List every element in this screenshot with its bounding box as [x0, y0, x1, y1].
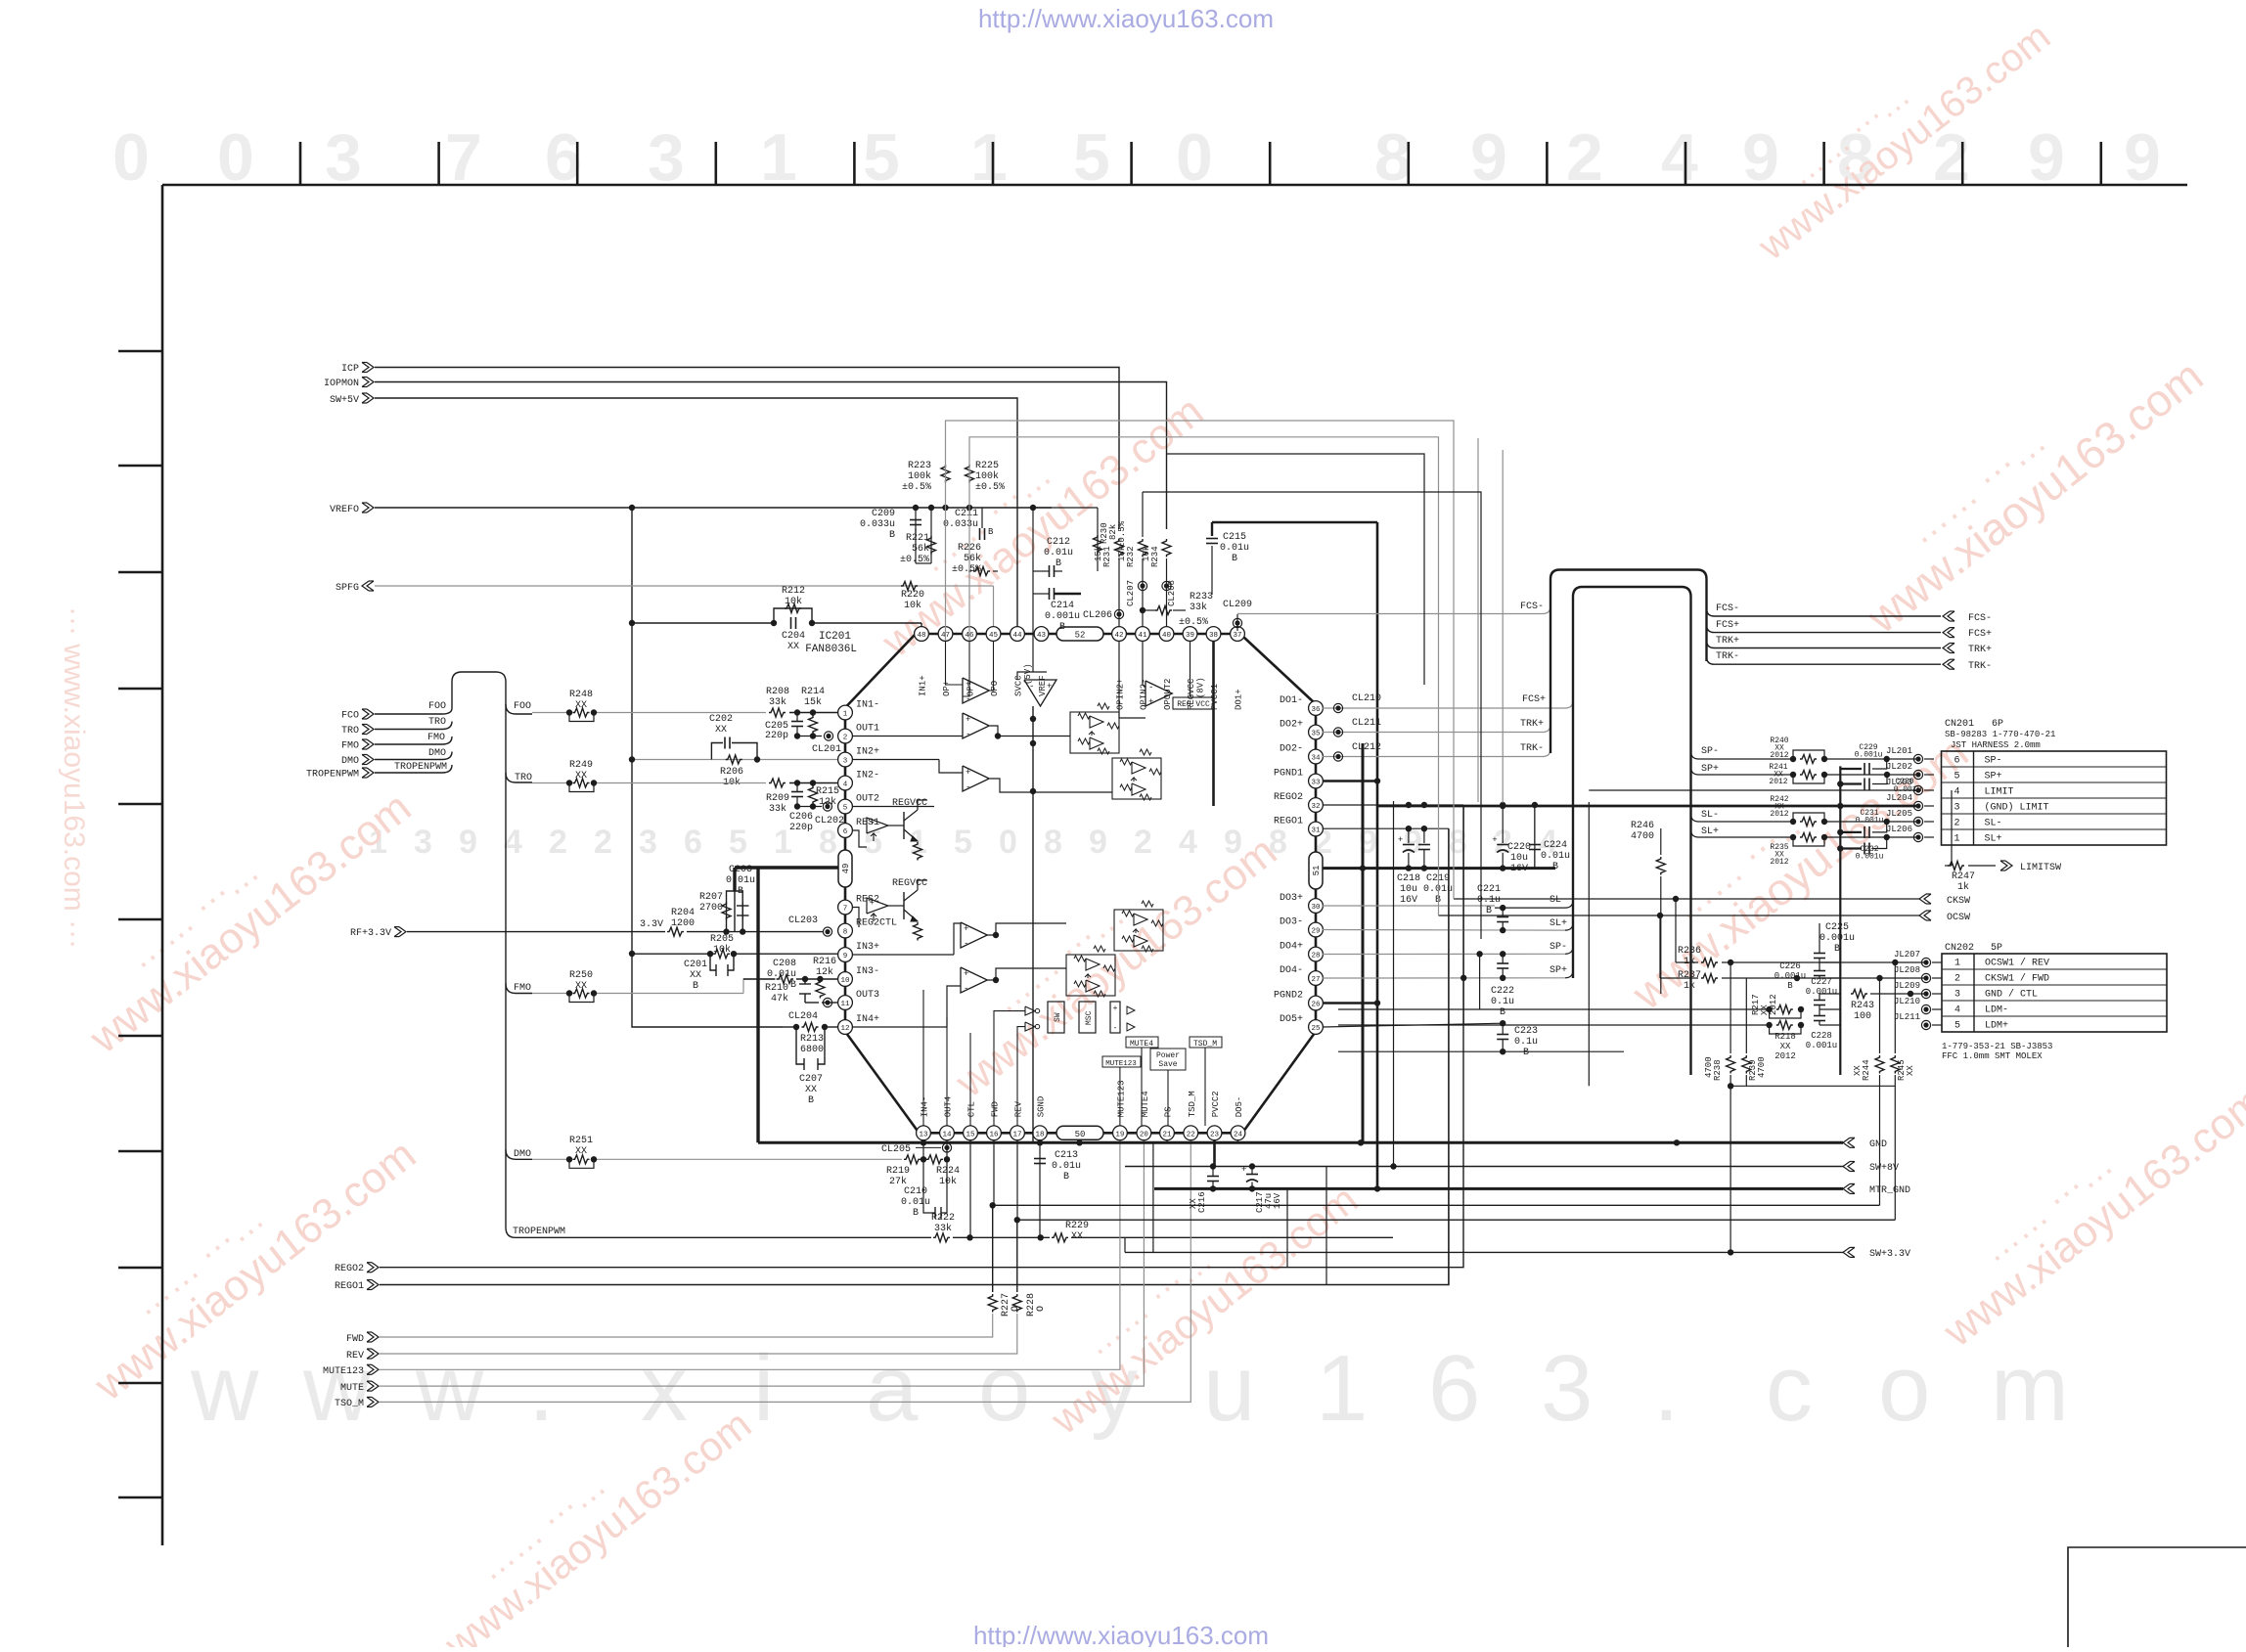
svg-text:29: 29: [1311, 928, 1320, 936]
svg-text:B: B: [1523, 1048, 1529, 1058]
resistor R213 and capacitor C207: [802, 1023, 819, 1032]
wire IN3- row: [743, 978, 775, 980]
svg-text:33: 33: [1311, 780, 1321, 787]
svg-text:2012: 2012: [1769, 994, 1778, 1015]
svg-text:C223: C223: [1514, 1026, 1538, 1037]
svg-text:IOPMON: IOPMON: [324, 379, 359, 389]
svg-text:±0.5%: ±0.5%: [1179, 617, 1208, 628]
capacitor C213: [1039, 1140, 1041, 1238]
svg-text:TSO_M: TSO_M: [335, 1399, 364, 1409]
svg-text:0.01u: 0.01u: [901, 1197, 930, 1208]
svg-text:FMO: FMO: [514, 983, 531, 994]
svg-text:2012: 2012: [1770, 751, 1788, 760]
resistor R236: [1701, 959, 1718, 967]
node TRK- output: [1948, 659, 1954, 669]
page border left line: [161, 185, 164, 1545]
wire TRK+ exit: [1707, 641, 1942, 648]
svg-text:R205: R205: [710, 934, 734, 945]
svg-text:38: 38: [1209, 632, 1218, 640]
svg-text:SP+: SP+: [1701, 764, 1719, 775]
svg-text:XX: XX: [1071, 1231, 1083, 1242]
capacitor C211: [981, 508, 983, 528]
capacitor C227: [1814, 1000, 1825, 1002]
svg-text:REG VCC: REG VCC: [1177, 700, 1210, 709]
svg-text:9: 9: [843, 953, 848, 960]
svg-text:SP+: SP+: [1985, 772, 2002, 782]
wire IN4 nets: [852, 1026, 947, 1028]
svg-text:24: 24: [1234, 1131, 1243, 1139]
svg-text:CL205: CL205: [881, 1144, 911, 1155]
capacitor C209: [915, 508, 917, 533]
svg-text:CKSW: CKSW: [1947, 896, 1970, 907]
svg-text:2012: 2012: [1770, 858, 1788, 867]
svg-text:XX: XX: [575, 1146, 587, 1157]
svg-text:R227: R227: [1001, 1293, 1011, 1317]
svg-text:XX: XX: [575, 771, 587, 781]
svg-text:R219: R219: [886, 1166, 910, 1177]
capacitor C202 with resistor R206: [711, 743, 723, 760]
svg-text:B: B: [1063, 1172, 1069, 1183]
capacitor C231: [1840, 831, 1862, 833]
svg-text:8: 8: [1449, 824, 1467, 861]
svg-text:0: 0: [112, 120, 150, 195]
wire thick verticals: [1362, 743, 1365, 1142]
boxed label REG VCC: [1173, 697, 1214, 709]
svg-text:47k: 47k: [771, 993, 788, 1005]
svg-text:C206: C206: [789, 812, 813, 823]
capacitor C225: [1819, 923, 1820, 953]
wire GND LIMIT row thick: [1377, 805, 1918, 808]
wire TSO_M net: [380, 1140, 1190, 1403]
svg-text:www.xiaoyu163.com: www.xiaoyu163.com: [1750, 15, 2058, 269]
wire DO5+ row: [1323, 1023, 1503, 1027]
svg-text:16V: 16V: [1400, 895, 1417, 906]
svg-text:FMO: FMO: [427, 733, 445, 743]
resistor R242: [1790, 819, 1796, 825]
svg-text:1-779-353-21 SB-J3853: 1-779-353-21 SB-J3853: [1942, 1042, 2052, 1051]
wire decoupling ground bus thick: [1323, 867, 1555, 870]
capacitor C218: [1408, 828, 1410, 843]
svg-text:10k: 10k: [939, 1176, 957, 1187]
svg-text:C215: C215: [1223, 532, 1246, 543]
wire GND bus thick: [758, 1141, 1843, 1144]
boxed label Power Save: [1150, 1049, 1186, 1070]
svg-text:R234: R234: [1150, 546, 1160, 567]
wire SP+ row: [1323, 977, 1565, 979]
wire thick vertical to GND bus: [756, 868, 759, 1142]
svg-text:OUT2: OUT2: [856, 794, 879, 805]
svg-text:FCO: FCO: [341, 711, 359, 722]
wire SP- to CN201: [1691, 751, 1794, 759]
svg-text:10: 10: [840, 977, 850, 985]
svg-text:220p: 220p: [789, 823, 813, 833]
wire OPIN2 feedback: [1119, 641, 1145, 718]
svg-text:13: 13: [919, 1131, 928, 1139]
svg-text:1: 1: [1316, 1336, 1368, 1441]
svg-text:51: 51: [1312, 866, 1322, 876]
svg-text:OUT4: OUT4: [944, 1096, 954, 1118]
svg-text:LIMIT: LIMIT: [1985, 787, 2014, 798]
resistor R224: [926, 1155, 943, 1164]
svg-text:21: 21: [1162, 1131, 1172, 1139]
capacitor C232: [1840, 847, 1862, 849]
svg-text:MUTE4: MUTE4: [1130, 1040, 1153, 1049]
svg-text:RES1: RES1: [856, 818, 879, 828]
svg-text:TRO: TRO: [428, 717, 446, 728]
svg-text:56k: 56k: [912, 543, 929, 555]
resistor R237: [1701, 974, 1718, 983]
svg-text:100k: 100k: [975, 470, 999, 482]
capacitor C219: [1423, 828, 1425, 843]
svg-text:R231: R231: [1102, 546, 1112, 567]
wire bottom pin interior stubs: [922, 990, 924, 1126]
wire OUT2 feedback row: [797, 806, 822, 808]
svg-text:C218: C218: [1397, 873, 1420, 884]
IC U201 top pins 42-37: [1112, 627, 1127, 642]
svg-text:6800: 6800: [800, 1045, 824, 1055]
svg-text:B: B: [889, 530, 895, 541]
bus crossover hat outer: [1550, 570, 1707, 754]
svg-text:R216: R216: [813, 957, 836, 967]
wire OCSW net: [1439, 915, 1920, 916]
svg-text:2: 2: [594, 824, 612, 861]
op-amp VREF buffer: [1024, 680, 1056, 706]
svg-text:TRK+: TRK+: [1520, 719, 1544, 730]
boxed label MUTE4: [1126, 1037, 1158, 1048]
svg-text:R225: R225: [975, 461, 999, 471]
IC U201 left pins 1-6: [838, 705, 853, 720]
wire pin21 drop: [1166, 1140, 1168, 1143]
svg-text:R214: R214: [801, 687, 825, 697]
page border top ruler line: [162, 184, 2187, 187]
svg-text:CL211: CL211: [1352, 718, 1381, 729]
resistor R241: [1790, 772, 1796, 778]
svg-text:7: 7: [843, 906, 848, 914]
svg-text:20: 20: [1140, 1131, 1149, 1139]
svg-text:0: 0: [999, 824, 1017, 861]
resistor R205 and capacitor C201: [707, 951, 713, 957]
svg-text:FOO: FOO: [428, 701, 446, 712]
svg-text:R207: R207: [699, 892, 723, 903]
wire REGVCC pin stub: [1190, 641, 1191, 696]
svg-text:OPO: OPO: [990, 681, 1000, 696]
svg-text:GND / CTL: GND / CTL: [1985, 989, 2038, 1001]
svg-text:OCSW1 / REV: OCSW1 / REV: [1985, 958, 2049, 969]
svg-text:FCS-: FCS-: [1716, 603, 1739, 614]
wire FOO row: [532, 712, 569, 714]
svg-text:1k: 1k: [1684, 980, 1695, 992]
svg-text:R236: R236: [1678, 946, 1701, 957]
wire R212 row: [632, 622, 774, 624]
node CL212: [1333, 752, 1342, 761]
svg-text:R220: R220: [901, 590, 924, 601]
wire OUT2 net: [852, 806, 934, 808]
node CL203: [823, 927, 831, 936]
svg-text:C216: C216: [1197, 1191, 1207, 1213]
svg-text:c: c: [1766, 1336, 1813, 1441]
svg-text:50: 50: [1075, 1130, 1086, 1139]
svg-text:19: 19: [1115, 1131, 1124, 1139]
node MTR_GND: [1848, 1183, 1855, 1193]
wire REV net: [380, 1314, 1017, 1354]
svg-text:5: 5: [1954, 772, 1959, 782]
svg-text:R244: R244: [1862, 1059, 1871, 1081]
wire loop OP- to OCSW: [969, 437, 1439, 915]
svg-text:12k: 12k: [816, 966, 833, 978]
svg-text:9: 9: [1089, 824, 1107, 861]
svg-text:RF+3.3V: RF+3.3V: [350, 928, 391, 939]
connector CN201 table: [1942, 751, 2167, 845]
wire pin16 pin17 drops: [993, 1140, 995, 1206]
svg-text:10k: 10k: [1142, 546, 1151, 561]
svg-text:±0.5%: ±0.5%: [902, 482, 931, 493]
svg-text:.: .: [528, 1336, 555, 1441]
svg-text:10u: 10u: [1510, 853, 1528, 864]
resistor R226: [973, 567, 990, 576]
svg-text:SL+: SL+: [1550, 918, 1567, 929]
svg-text:2012: 2012: [1774, 1051, 1796, 1061]
capacitor C220: [1502, 805, 1504, 843]
wire pin23 PVCC2 drop: [1213, 1140, 1216, 1167]
svg-text:10u: 10u: [1400, 884, 1417, 895]
svg-text:GND: GND: [1869, 1139, 1887, 1150]
svg-text:31: 31: [1311, 827, 1321, 835]
svg-text:+: +: [1398, 835, 1403, 845]
svg-text:4700: 4700: [1631, 831, 1654, 842]
svg-text:1: 1: [1954, 959, 1960, 969]
svg-text:DO3-: DO3-: [1280, 917, 1303, 928]
svg-text:JL210: JL210: [1894, 997, 1920, 1006]
svg-text:3: 3: [1954, 990, 1960, 1001]
resistor R230: [1097, 508, 1099, 571]
svg-text:SL-: SL-: [1701, 810, 1719, 821]
wire SL- row: [1323, 905, 1495, 907]
svg-text:0.001u: 0.001u: [1806, 987, 1837, 997]
resistor R244: [1875, 1055, 1884, 1074]
wire OUT1 feedback row: [797, 736, 822, 737]
svg-text:5: 5: [1073, 120, 1110, 195]
resistor R207 and capacitor C203: [727, 891, 743, 932]
svg-text:C226: C226: [1779, 961, 1801, 971]
svg-text:-: -: [1029, 682, 1034, 692]
IC U201 pin oval 52: [1056, 627, 1103, 641]
svg-text:DO3+: DO3+: [1280, 893, 1303, 904]
svg-text:2: 2: [549, 824, 567, 861]
op-amp OUT2 amp: [963, 766, 989, 791]
svg-text:0.001u: 0.001u: [1856, 852, 1884, 861]
svg-text:41: 41: [1138, 632, 1147, 640]
svg-text:49: 49: [841, 864, 851, 874]
svg-text:B: B: [808, 1095, 814, 1106]
wire MUTE123 net: [380, 1140, 1120, 1370]
wire REV inner net: [1016, 1220, 1018, 1292]
svg-text:B: B: [913, 1208, 919, 1219]
svg-text:2: 2: [1954, 819, 1959, 829]
resistor R246: [1660, 828, 1662, 855]
wire RES1 net: [852, 830, 867, 847]
svg-text:SL+: SL+: [1701, 826, 1719, 837]
wire VREFO net: [375, 507, 1052, 509]
svg-text:+: +: [1148, 697, 1153, 707]
svg-text:8: 8: [843, 929, 848, 937]
resistor R214: [809, 716, 818, 735]
svg-text:JST HARNESS 2.0mm: JST HARNESS 2.0mm: [1951, 740, 2041, 750]
svg-text:R233: R233: [1190, 592, 1213, 603]
wire FCO entry: [375, 708, 452, 714]
node CKSW: [1924, 894, 1931, 904]
resistor R245: [1891, 1055, 1900, 1074]
svg-text:FCS-: FCS-: [1520, 602, 1544, 612]
svg-text:14: 14: [942, 1131, 952, 1139]
svg-text:XX: XX: [1189, 1198, 1198, 1209]
capacitor C230: [1840, 782, 1862, 784]
resistor R208: [769, 708, 786, 717]
node CL208: [1162, 581, 1171, 590]
svg-text:3: 3: [325, 120, 362, 195]
svg-text:9: 9: [459, 824, 477, 861]
svg-text:27: 27: [1311, 976, 1320, 984]
wire oval50 ground drop: [1078, 1140, 1081, 1143]
svg-text:R210: R210: [765, 983, 788, 994]
node CL210: [1333, 703, 1342, 712]
svg-text:x: x: [641, 1336, 688, 1441]
svg-text:1: 1: [1954, 834, 1959, 845]
svg-text:.: .: [1653, 1336, 1680, 1441]
driver cluster D: [1066, 955, 1115, 996]
resistor R249: [566, 780, 572, 785]
svg-text:5: 5: [1954, 1021, 1960, 1032]
svg-text:C201: C201: [684, 960, 707, 970]
svg-text:C207: C207: [799, 1074, 823, 1085]
wire TRK- exit: [1707, 656, 1942, 664]
resistor R248: [566, 709, 572, 715]
wire IN3 nets: [852, 954, 954, 956]
wire TRO row: [532, 782, 569, 784]
wire SW+3.3V net: [1125, 1251, 1843, 1253]
svg-text:4: 4: [1661, 120, 1698, 195]
svg-text:MSC: MSC: [1085, 1010, 1094, 1025]
capacitor C214: [1049, 588, 1051, 600]
capacitor C228: [1814, 1015, 1825, 1017]
resistor R204: [667, 927, 684, 936]
wire FMO row: [532, 993, 569, 995]
svg-text:10k: 10k: [785, 596, 802, 607]
svg-text:SW+3.3V: SW+3.3V: [1869, 1249, 1910, 1260]
resistor R218: [1766, 1022, 1772, 1028]
svg-text:0.033u: 0.033u: [943, 519, 978, 530]
wire loop OPIN2- net: [1143, 492, 1481, 939]
resistor R247 LIMITSW: [1951, 790, 1953, 866]
svg-text:JL209: JL209: [1894, 981, 1920, 991]
svg-text:CL203: CL203: [788, 915, 818, 926]
resistor R251: [566, 1156, 572, 1162]
svg-text:4: 4: [1179, 824, 1197, 861]
svg-text:33k: 33k: [769, 803, 786, 815]
wire pin24 drop: [1237, 1140, 1239, 1143]
svg-text:C210: C210: [904, 1186, 927, 1197]
svg-text:REGO2: REGO2: [1274, 792, 1303, 803]
svg-text:TRO: TRO: [341, 726, 359, 737]
wire SW+5V net: [375, 398, 1017, 627]
top ruler ticks: [300, 142, 2101, 185]
svg-text:SL-: SL-: [1985, 819, 2002, 829]
svg-text:OPIN2+: OPIN2+: [1116, 679, 1126, 710]
svg-text:±0.5%: ±0.5%: [900, 555, 929, 565]
svg-text:4: 4: [1954, 787, 1959, 798]
svg-text:0.01u: 0.01u: [726, 875, 755, 886]
op-amp OPIN2 amp: [1145, 681, 1172, 706]
wire SL- to CN201: [1691, 814, 1794, 822]
wire FCS- exit: [1707, 608, 1942, 616]
wire MUTE123 inner: [1119, 1067, 1121, 1126]
wire RES2 net: [852, 908, 859, 928]
node CL205: [942, 1143, 951, 1152]
IC U201 pin oval 50: [1056, 1126, 1103, 1139]
svg-text:44: 44: [1012, 632, 1022, 640]
svg-text:Save: Save: [1158, 1060, 1177, 1069]
wire REGO2 net: [380, 805, 1463, 1268]
svg-text:CL210: CL210: [1352, 693, 1381, 704]
svg-text:0.01u: 0.01u: [1220, 543, 1249, 554]
svg-text:w: w: [190, 1336, 259, 1441]
svg-text:18k: 18k: [1117, 546, 1127, 561]
boxed label MUTE123: [1102, 1056, 1141, 1067]
svg-text:www.xiaoyu163.com: www.xiaoyu163.com: [435, 1401, 759, 1647]
svg-text:1: 1: [760, 120, 797, 195]
svg-text:VREFO: VREFO: [330, 505, 359, 515]
svg-text:XX: XX: [690, 970, 701, 981]
svg-text:LDM-: LDM-: [1985, 1005, 2008, 1016]
left ruler ticks: [118, 351, 162, 1497]
svg-text:5P: 5P: [1991, 943, 2002, 954]
svg-text:C224: C224: [1544, 840, 1567, 851]
IC U201 top pins 48-43: [915, 627, 929, 642]
svg-text:R251: R251: [569, 1136, 593, 1146]
svg-text:33k: 33k: [1190, 602, 1207, 613]
svg-text:IN4-: IN4-: [921, 1096, 930, 1118]
node CL204: [823, 998, 831, 1006]
svg-text:CL209: CL209: [1223, 600, 1252, 610]
svg-text:B: B: [1787, 981, 1793, 991]
capacitor C210: [923, 1159, 935, 1213]
svg-text:TRK+: TRK+: [1716, 636, 1739, 647]
svg-text:FCS+: FCS+: [1968, 629, 1992, 640]
svg-text:+: +: [966, 768, 970, 778]
svg-text:CKSW1 / FWD: CKSW1 / FWD: [1985, 973, 2049, 985]
resistor R215: [809, 786, 818, 805]
wire IOPMON net: [375, 382, 1167, 530]
svg-text:JL206: JL206: [1886, 825, 1912, 834]
resistor R220: [901, 582, 918, 591]
svg-text:C228: C228: [1811, 1031, 1832, 1041]
wire FWD net: [380, 1314, 993, 1337]
svg-text:56k: 56k: [964, 553, 981, 564]
svg-text:R229: R229: [1065, 1221, 1089, 1231]
svg-text:IN4+: IN4+: [856, 1014, 879, 1025]
svg-text:0.033u: 0.033u: [860, 519, 895, 530]
svg-text:11: 11: [840, 1001, 850, 1008]
wire R238 R239 bottom bus: [1730, 1085, 1895, 1087]
node CL201: [824, 732, 832, 740]
svg-text:B: B: [1486, 906, 1492, 916]
resistor R250: [566, 990, 572, 996]
svg-text:IN2+: IN2+: [856, 747, 879, 758]
svg-text:TRK-: TRK-: [1716, 651, 1739, 662]
svg-text:www.xiaoyu163.com: www.xiaoyu163.com: [1934, 1077, 2246, 1357]
wire OUT1 net: [852, 736, 963, 737]
capacitor C223: [1497, 1034, 1508, 1036]
node CL206: [1114, 609, 1123, 618]
